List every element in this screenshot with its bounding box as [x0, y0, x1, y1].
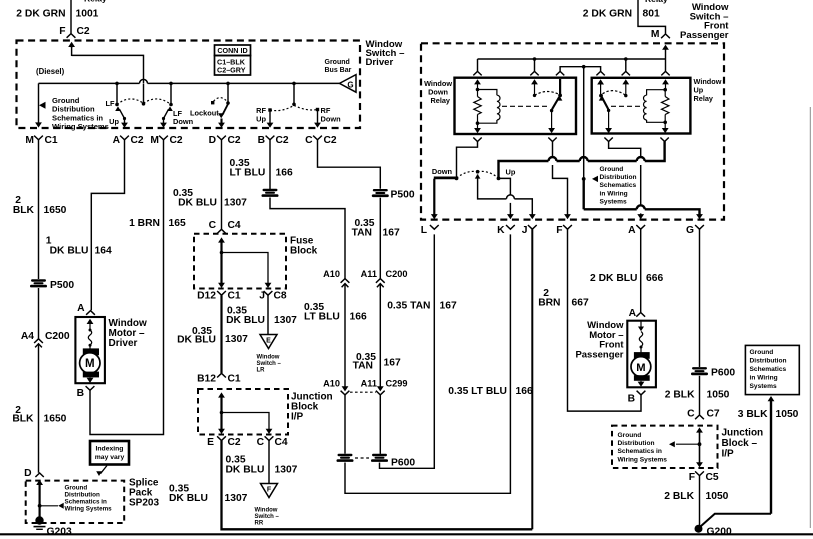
- svg-text:D: D: [24, 468, 31, 479]
- svg-text:Block: Block: [290, 246, 318, 257]
- svg-text:C4: C4: [275, 437, 288, 448]
- svg-text:A: A: [113, 135, 121, 146]
- connector C C7: [687, 409, 720, 420]
- label Fuse Block: [290, 236, 318, 257]
- wire 2 BLK 1650 lower: [38, 344, 40, 473]
- up relay resistor: [662, 88, 669, 133]
- down relay nc arc: [535, 91, 560, 95]
- svg-text:1307: 1307: [275, 465, 298, 476]
- RF switch feed tap: [292, 82, 296, 107]
- svg-text:C2: C2: [228, 135, 241, 146]
- svg-text:F: F: [689, 472, 695, 483]
- pin C C4 junction block: [257, 436, 288, 448]
- svg-text:Distribution: Distribution: [65, 491, 100, 498]
- svg-text:801: 801: [643, 9, 660, 20]
- svg-text:1050: 1050: [707, 389, 730, 400]
- svg-text:0.35 TAN: 0.35 TAN: [387, 300, 430, 311]
- svg-text:Up: Up: [506, 168, 516, 177]
- svg-text:Up: Up: [109, 117, 119, 126]
- wire 2 BLK 1050 to G200: [699, 476, 701, 526]
- down switch to pin L: [431, 179, 438, 220]
- up relay switch pin to pin A: [604, 138, 644, 220]
- label Lockout: [190, 108, 219, 117]
- wire motor B to M C2 brn 165: [90, 140, 164, 435]
- svg-text:Down: Down: [432, 167, 453, 176]
- svg-text:164: 164: [95, 245, 112, 256]
- wire 1 DK BLU 164: [91, 140, 124, 310]
- svg-text:Schematics: Schematics: [750, 366, 787, 373]
- feed branch to up relay contact pin: [622, 59, 630, 96]
- svg-text:A4: A4: [21, 331, 34, 342]
- pin J C8: [259, 291, 287, 302]
- pin A C2: [113, 135, 144, 146]
- up contact thick wire to up relay: [499, 138, 669, 179]
- svg-text:B: B: [628, 394, 635, 405]
- svg-text:Relay: Relay: [694, 94, 714, 103]
- passenger ground distribution reference: [592, 166, 637, 206]
- svg-text:A10: A10: [323, 378, 340, 388]
- ground bus bar symbol G: [340, 75, 357, 93]
- junction block IP box: [198, 389, 288, 435]
- svg-text:Schematics in: Schematics in: [618, 448, 662, 455]
- svg-text:M: M: [85, 358, 95, 370]
- svg-text:in Wiring: in Wiring: [600, 190, 628, 197]
- svg-text:C2: C2: [131, 135, 144, 146]
- svg-text:Ground: Ground: [600, 166, 624, 173]
- wire 2 BLK 1650 upper: [38, 140, 40, 279]
- svg-text:166: 166: [276, 167, 293, 178]
- connector A4 C200: [21, 331, 70, 348]
- svg-text:BRN: BRN: [538, 297, 560, 308]
- svg-text:0.35 LT BLU: 0.35 LT BLU: [448, 386, 507, 397]
- pin J: [522, 225, 537, 236]
- ground tap and thick ground wire: [582, 177, 703, 219]
- svg-text:TAN: TAN: [353, 361, 373, 372]
- svg-text:A11: A11: [361, 378, 377, 388]
- svg-text:Passenger: Passenger: [680, 30, 729, 41]
- svg-text:RR: RR: [255, 520, 264, 526]
- svg-text:Lockout: Lockout: [190, 108, 219, 117]
- LF switch pivots and common: [115, 102, 173, 106]
- svg-text:C2: C2: [77, 26, 90, 37]
- pin M C2: [150, 135, 183, 146]
- title Window Switch Driver: [366, 39, 406, 68]
- svg-text:C2: C2: [324, 135, 337, 146]
- svg-text:P500: P500: [50, 280, 74, 291]
- svg-text:D12: D12: [197, 291, 216, 302]
- svg-text:LR: LR: [257, 367, 266, 373]
- lockout linkage arc: [214, 98, 228, 102]
- svg-text:1650: 1650: [44, 413, 67, 424]
- pin D splice pack: [24, 468, 44, 519]
- label 2 BLK 1050: [665, 389, 730, 400]
- svg-text:Ground: Ground: [325, 59, 350, 66]
- svg-text:2 BLK: 2 BLK: [665, 389, 695, 400]
- RF Up contact: [267, 108, 274, 128]
- svg-text:M: M: [25, 135, 34, 146]
- wire E C2 down and across thick 1307: [222, 441, 533, 530]
- wire 2 DK BLU 666 pin A to motor: [640, 229, 642, 312]
- conn id table: [215, 45, 251, 75]
- connector P500 left: [30, 279, 74, 291]
- svg-text:3 BLK: 3 BLK: [738, 409, 768, 420]
- label Splice Pack SP203: [129, 478, 159, 509]
- svg-text:Ground: Ground: [65, 484, 88, 491]
- label 2 DK GRN 801: [583, 9, 660, 20]
- feed branch to down relay contact pin: [530, 59, 538, 95]
- svg-text:L: L: [421, 225, 427, 236]
- label 2 DK GRN 1001: [16, 9, 98, 20]
- wire 3 BLK 1050: [699, 396, 775, 528]
- svg-text:C5: C5: [706, 472, 719, 483]
- svg-text:Down: Down: [321, 115, 342, 124]
- svg-text:Relay: Relay: [645, 0, 668, 4]
- label 1 DK BLU 164: [46, 235, 112, 256]
- label Junction Block IP: [291, 392, 333, 423]
- svg-text:C: C: [305, 135, 313, 146]
- passenger feed bus: [478, 57, 666, 61]
- wire D12 to B12: [220, 295, 222, 373]
- label LF Up: [105, 99, 119, 126]
- svg-text:165: 165: [169, 218, 186, 229]
- dashed tie between P600 halves: [355, 457, 415, 468]
- ground distribution schematics box right: [745, 345, 799, 394]
- label 0.35 TAN 167 mid: [353, 352, 401, 372]
- svg-text:C1: C1: [228, 373, 241, 384]
- svg-text:Indexing: Indexing: [96, 446, 124, 453]
- svg-text:1 BRN: 1 BRN: [129, 218, 160, 229]
- svg-text:Systems: Systems: [750, 383, 777, 390]
- svg-text:C2: C2: [170, 135, 183, 146]
- svg-text:1307: 1307: [225, 334, 248, 345]
- label 2 BLK 1650: [13, 195, 67, 216]
- wire 166 C200 to C299: [344, 284, 346, 388]
- svg-text:J: J: [522, 225, 528, 236]
- svg-text:Schematics: Schematics: [600, 182, 637, 189]
- down relay armature: [548, 79, 562, 133]
- in-line connector on 166 wire: [262, 189, 279, 197]
- svg-text:Ground: Ground: [618, 432, 642, 439]
- lockout contact terminal: [211, 101, 230, 105]
- svg-text:A: A: [77, 303, 85, 314]
- label 2 DK BLU 666: [590, 273, 663, 284]
- svg-text:BLK: BLK: [12, 413, 34, 424]
- LF Up contact: [115, 106, 128, 127]
- wire between relays to ground tap: [583, 67, 585, 179]
- junction block IP right box: [612, 426, 718, 468]
- label RF Down: [321, 106, 342, 124]
- svg-text:Up: Up: [256, 114, 266, 123]
- wire 2 DK GRN 801 feed: [638, 0, 666, 34]
- wire 0.35 LT BLU 166 from B C2: [269, 140, 271, 189]
- motor pin B passenger: [628, 391, 646, 405]
- down relay resistor: [474, 88, 481, 134]
- svg-text:DK BLU: DK BLU: [50, 245, 89, 256]
- svg-text:CONN ID: CONN ID: [217, 46, 247, 55]
- wire 2 BRN 667 pin F to motor B: [568, 229, 642, 411]
- svg-text:A: A: [628, 225, 636, 236]
- label 3 BLK 1050: [738, 409, 799, 420]
- connector P500 right: [372, 189, 415, 201]
- wire 2 BLK 1050 from pin G: [699, 229, 701, 367]
- svg-text:Passenger: Passenger: [575, 349, 623, 360]
- svg-text:Down: Down: [173, 117, 194, 126]
- svg-text:1307: 1307: [224, 197, 247, 208]
- svg-text:M: M: [636, 362, 645, 374]
- svg-text:K: K: [497, 225, 505, 236]
- pin D12 C1: [197, 291, 241, 302]
- svg-text:C1: C1: [228, 291, 241, 302]
- down relay contact terminal: [533, 94, 536, 97]
- svg-text:I/P: I/P: [291, 412, 304, 423]
- pin M C1: [25, 135, 58, 146]
- up relay nc arc: [603, 91, 626, 96]
- junction block internal wires: [218, 392, 272, 434]
- indexing note arrow: [96, 466, 107, 477]
- connector F C2 driver switch: [59, 26, 90, 56]
- wire 167 C299 to P600: [379, 395, 381, 454]
- svg-text:A10: A10: [323, 269, 340, 279]
- pin F C5: [689, 471, 719, 483]
- label 0.35 DK BLU 1307 upper: [173, 188, 247, 209]
- connector C299 pin A11: [361, 378, 408, 395]
- motor pin A: [77, 303, 95, 315]
- svg-text:F: F: [556, 225, 562, 236]
- lockout switch feed tap: [226, 82, 230, 103]
- svg-text:DK BLU: DK BLU: [226, 315, 265, 326]
- up relay contact terminal: [624, 94, 627, 97]
- wire 167 to C200: [379, 198, 381, 279]
- svg-text:1650: 1650: [44, 205, 67, 216]
- svg-text:Systems: Systems: [600, 199, 627, 206]
- svg-text:P500: P500: [391, 190, 415, 201]
- motor pin B: [77, 386, 95, 399]
- svg-text:SP203: SP203: [129, 498, 159, 509]
- connector B12 C1 junction block: [197, 373, 241, 384]
- window up relay box: [592, 78, 691, 134]
- svg-text:Window: Window: [257, 354, 280, 360]
- svg-text:in Wiring: in Wiring: [750, 374, 778, 381]
- pin K: [497, 225, 515, 236]
- label Junction Block IP right: [722, 427, 764, 459]
- up relay armature: [597, 79, 612, 133]
- window switch front passenger box: [421, 43, 724, 219]
- splice pack box: [26, 481, 125, 523]
- svg-text:166: 166: [516, 386, 533, 397]
- down relay switch pin to pin F: [548, 138, 571, 220]
- fuse block box: [194, 234, 286, 289]
- svg-text:J: J: [259, 291, 265, 302]
- svg-text:C2–GRY: C2–GRY: [217, 66, 246, 75]
- connector C200 pin A11: [361, 269, 408, 287]
- pin A: [628, 225, 645, 236]
- up relay linkage dashes: [611, 105, 643, 107]
- LF switch linkage arcs: [117, 99, 171, 105]
- svg-text:C8: C8: [274, 291, 287, 302]
- ground G203: [34, 516, 72, 537]
- pin G: [686, 225, 704, 236]
- svg-text:666: 666: [646, 273, 663, 284]
- svg-text:may vary: may vary: [95, 454, 125, 461]
- svg-text:(Diesel): (Diesel): [36, 67, 65, 76]
- svg-text:2 DK BLU: 2 DK BLU: [590, 273, 637, 284]
- svg-text:C7: C7: [707, 409, 720, 420]
- ground G200: [695, 525, 732, 538]
- wire LF switch feed taps: [115, 82, 173, 105]
- svg-text:Relay: Relay: [431, 96, 451, 105]
- svg-text:Switch –: Switch –: [255, 514, 280, 520]
- window motor driver internals: [80, 319, 100, 383]
- svg-text:Ground: Ground: [52, 96, 80, 105]
- feed branch to up relay resistor pin: [661, 59, 669, 90]
- svg-text:C2: C2: [228, 437, 241, 448]
- svg-text:1001: 1001: [76, 9, 99, 20]
- svg-text:Window: Window: [255, 507, 278, 513]
- RF switch linkage arcs: [270, 105, 318, 110]
- label 0.35 DK BLU 1307 lower: [169, 483, 248, 504]
- svg-text:C200: C200: [45, 331, 70, 342]
- pin L: [421, 225, 439, 236]
- svg-text:BLK: BLK: [13, 205, 35, 216]
- bottom border line: [0, 533, 813, 535]
- svg-text:167: 167: [384, 358, 401, 369]
- svg-text:B: B: [258, 135, 265, 146]
- svg-text:Schematics in: Schematics in: [52, 113, 103, 122]
- svg-text:TAN: TAN: [352, 227, 372, 238]
- label RF Up: [256, 106, 266, 124]
- svg-text:D: D: [209, 135, 216, 146]
- svg-text:A11: A11: [361, 269, 377, 279]
- svg-text:Wiring Systems: Wiring Systems: [618, 456, 668, 463]
- svg-text:Distribution: Distribution: [52, 105, 95, 114]
- label 0.35 TAN 167 lower: [387, 300, 457, 311]
- indexing note box: [90, 441, 129, 465]
- svg-text:2 BLK: 2 BLK: [664, 491, 694, 502]
- wire 167 P600 to pin L: [380, 234, 435, 468]
- connector P600 left: [337, 454, 354, 462]
- svg-text:A: A: [629, 308, 637, 319]
- svg-text:DK BLU: DK BLU: [226, 465, 265, 476]
- connector C299 pin A10: [323, 378, 349, 395]
- label 0.35 LT BLU 166: [230, 158, 293, 179]
- label 0.35 TAN 167 upper: [352, 218, 400, 239]
- label 2 BLK 1050 lower: [664, 491, 728, 502]
- down relay coil pin to down contact: [457, 138, 482, 178]
- svg-text:F: F: [59, 26, 65, 37]
- svg-text:E: E: [266, 338, 271, 345]
- svg-text:C4: C4: [228, 220, 241, 231]
- svg-text:G: G: [347, 81, 353, 90]
- down switch blade thick: [434, 177, 459, 181]
- svg-text:F: F: [267, 487, 272, 494]
- svg-text:Distribution: Distribution: [750, 358, 787, 365]
- wire fuse J to window switch LR: [267, 295, 269, 334]
- label Window Down Relay: [424, 79, 452, 105]
- junction block right ground text: [618, 432, 668, 464]
- svg-text:Block –: Block –: [722, 438, 758, 449]
- splice pack ground distribution reference: [38, 484, 112, 512]
- label 2 BLK 1650 lower: [12, 405, 66, 425]
- window down relay box: [455, 78, 577, 134]
- label Diesel: [36, 67, 65, 76]
- label 0.35 LT BLU 166 mid: [304, 302, 367, 323]
- svg-text:LF: LF: [105, 99, 115, 108]
- svg-text:G200: G200: [707, 527, 732, 538]
- svg-text:Distribution: Distribution: [618, 440, 655, 447]
- connector P600 ground: [691, 367, 735, 379]
- label Window Up Relay: [694, 77, 722, 103]
- junction block right internals: [669, 427, 703, 467]
- label 0.35 DK BLU 1307 on C4 wire: [226, 454, 298, 475]
- svg-text:C: C: [687, 409, 695, 420]
- svg-text:LT BLU: LT BLU: [230, 167, 266, 178]
- center post to pin J: [475, 170, 536, 219]
- svg-text:Driver: Driver: [366, 57, 394, 68]
- connector C C4 fuse block: [209, 220, 241, 234]
- svg-text:B12: B12: [197, 373, 216, 384]
- label Ground Bus Bar: [325, 59, 352, 74]
- svg-text:1050: 1050: [776, 409, 799, 420]
- fuse block internal wires: [218, 237, 271, 288]
- svg-text:Switch –: Switch –: [257, 361, 282, 367]
- motor pin A passenger: [629, 308, 646, 319]
- wire to junction block: [699, 376, 701, 415]
- pin E C2: [207, 436, 241, 448]
- partial Relay text top left: [84, 0, 107, 3]
- window motor front passenger box: [627, 321, 656, 388]
- bracket net down pivot to up pivot: [556, 65, 605, 76]
- wire 166 C299 to P600: [344, 395, 346, 454]
- svg-text:DK BLU: DK BLU: [169, 493, 208, 504]
- label Window Motor Driver: [109, 318, 147, 349]
- svg-text:Driver: Driver: [109, 338, 138, 349]
- svg-text:C: C: [257, 437, 265, 448]
- label LF Down: [173, 109, 194, 126]
- svg-text:167: 167: [383, 227, 400, 238]
- wire 166 P600 to pin K: [345, 234, 510, 493]
- svg-text:G203: G203: [47, 526, 72, 537]
- wire below P500: [38, 288, 40, 339]
- svg-text:E: E: [207, 437, 214, 448]
- partial Relay text top right: [645, 0, 668, 4]
- pin B C2: [258, 135, 289, 146]
- RF Down contact: [314, 108, 321, 128]
- svg-text:1050: 1050: [706, 491, 729, 502]
- svg-text:G: G: [686, 225, 694, 236]
- svg-text:C299: C299: [386, 378, 408, 388]
- feed branch to down relay coil pin: [473, 59, 481, 90]
- svg-text:166: 166: [350, 311, 367, 322]
- up contact terminal: [497, 168, 516, 181]
- wire 0.35 TAN 167 from C C2: [318, 140, 381, 189]
- lockout blade: [218, 104, 228, 128]
- svg-text:DK BLU: DK BLU: [177, 335, 216, 346]
- svg-text:Distribution: Distribution: [600, 174, 637, 181]
- svg-text:P600: P600: [711, 368, 735, 379]
- svg-text:I/P: I/P: [722, 449, 735, 460]
- dashed tie C299: [350, 391, 376, 393]
- window motor driver box: [75, 317, 105, 383]
- svg-text:Ground: Ground: [750, 349, 774, 356]
- up relay coil: [644, 90, 666, 123]
- svg-text:LT BLU: LT BLU: [304, 311, 340, 322]
- connector C200 pin A10: [323, 269, 349, 287]
- pin C C2: [305, 135, 337, 146]
- ground bus wire: [39, 79, 340, 83]
- svg-text:167: 167: [440, 300, 457, 311]
- down up linkage arcs: [457, 171, 499, 178]
- off page triangle E window switch LR: [257, 335, 282, 374]
